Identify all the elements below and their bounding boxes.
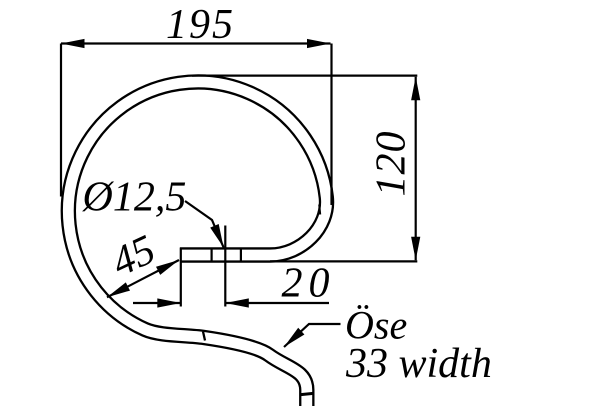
dimension 45 [107, 260, 179, 297]
tail end tick [301, 393, 313, 394]
svg-text:Ø12,5: Ø12,5 [82, 175, 187, 221]
leader Oese [284, 324, 341, 347]
wire outline of eyelet part (double line via black+white stroke) [68, 82, 326, 406]
dimension 20 [133, 226, 329, 307]
hole tick left [211, 248, 213, 263]
dimension 120 [192, 76, 417, 262]
svg-text:33 width: 33 width [345, 341, 492, 387]
svg-text:20: 20 [282, 261, 336, 307]
strap end cap [180, 248, 182, 263]
dimension 195 [61, 44, 332, 206]
leader diameter 12,5 [185, 201, 224, 248]
tail joint tick [203, 332, 205, 341]
svg-text:120: 120 [369, 131, 415, 197]
hole tick right [240, 248, 242, 263]
inner junction jog [319, 205, 320, 215]
svg-text:195: 195 [166, 2, 235, 48]
